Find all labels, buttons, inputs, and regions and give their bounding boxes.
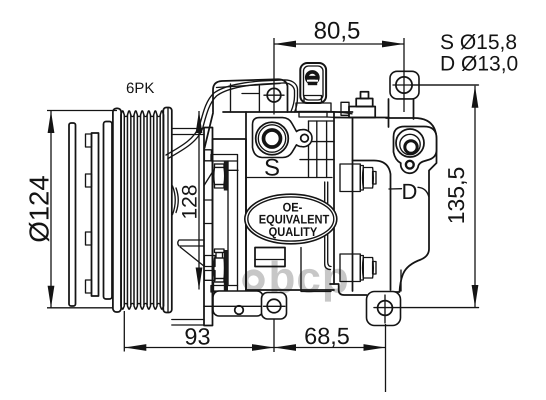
front housing top bar [211, 155, 238, 162]
mid inner outline [353, 161, 391, 291]
dimension 80,5 [274, 43, 404, 45]
bottom arm hole [235, 306, 244, 315]
center-right lower edge [300, 248, 302, 292]
bracket hole [267, 88, 281, 102]
center-right panel lines [308, 121, 310, 178]
through-bolt upper rear [360, 166, 363, 191]
pulley hub front plate [69, 123, 76, 306]
pulley left rim [113, 108, 121, 312]
suction port boss outline [253, 118, 312, 158]
svg-text:D: D [401, 179, 417, 204]
front plate step rects [204, 256, 215, 267]
svg-text:128: 128 [179, 184, 202, 219]
discharge port rings [396, 129, 424, 157]
electrical connector body [300, 63, 326, 103]
svg-text:6PK: 6PK [126, 80, 154, 97]
bottom right lug hole [378, 301, 393, 316]
shaft gap bottom lines [172, 319, 204, 321]
svg-text:80,5: 80,5 [314, 18, 361, 45]
bottom right mounting lug [367, 292, 401, 326]
top right mounting lug [390, 71, 419, 99]
svg-text:135,5: 135,5 [443, 167, 469, 225]
front block inner ledge [213, 169, 238, 171]
front housing bottom bar [211, 286, 238, 293]
small hole below D port [406, 161, 414, 169]
connector base [304, 96, 322, 104]
discharge port boss outline [394, 127, 437, 174]
suction lug hole [301, 134, 309, 142]
svg-text:S: S [264, 155, 280, 182]
bottom center lug [262, 293, 287, 320]
dimension diameter 124 [50, 111, 52, 308]
pulley right rim band [163, 108, 172, 313]
svg-text:93: 93 [184, 324, 210, 350]
dimension 128 [198, 111, 200, 290]
clutch wire to connector [166, 80, 298, 155]
mid bottom edge [330, 284, 367, 295]
shaft gap top lines [172, 128, 204, 130]
rear bolt boss upper [340, 164, 360, 192]
front housing top slope [205, 113, 214, 148]
through-bolt upper front [224, 161, 228, 191]
front mounting plate [204, 128, 213, 326]
port label D with leader [389, 188, 402, 190]
svg-text:Ø124: Ø124 [24, 175, 55, 242]
pulley flange plate [104, 122, 113, 300]
svg-text:QUALITY: QUALITY [269, 225, 318, 239]
svg-text:68,5: 68,5 [304, 323, 350, 349]
bottom bracket arm [213, 291, 263, 316]
front housing block [213, 139, 247, 313]
through-bolt lower rear [360, 256, 363, 281]
center block outline [245, 112, 247, 290]
dimension 93 [124, 347, 274, 349]
wire to rear fitting [331, 112, 352, 114]
mid section divider [352, 118, 354, 292]
OE-equivalent stamp oval [245, 194, 337, 244]
relief valve fitting [341, 102, 349, 115]
svg-text:S Ø15,8: S Ø15,8 [440, 31, 517, 54]
watermark logo ring [245, 272, 261, 288]
dimension 68,5 [274, 347, 386, 349]
label plate [255, 248, 285, 267]
bottom center lug hole [267, 299, 281, 313]
rear bolt boss lower [340, 254, 360, 282]
top right lug hole [396, 77, 412, 93]
through-bolt lower front [224, 250, 228, 291]
pulley clutch plate with rivet tabs [92, 133, 99, 296]
svg-text:D Ø13,0: D Ø13,0 [440, 52, 518, 75]
stamp text [259, 200, 330, 239]
front housing inner lines [227, 161, 229, 286]
pulley belt ribs 6PK [121, 111, 124, 309]
shaft middle lines [178, 240, 204, 246]
center block divider [246, 177, 332, 179]
mid section top edge [334, 117, 389, 119]
rear head inner line [400, 270, 402, 291]
rear head outline [386, 118, 437, 292]
rim side arcs [173, 186, 176, 215]
dimension 135,5 [474, 86, 476, 307]
connector socket [307, 72, 318, 83]
bracket fold line [230, 84, 232, 112]
center-right slot [325, 182, 331, 270]
top mounting bracket [213, 79, 288, 112]
suction port rings [256, 122, 289, 155]
bottom arm crosshair line [204, 305, 262, 307]
